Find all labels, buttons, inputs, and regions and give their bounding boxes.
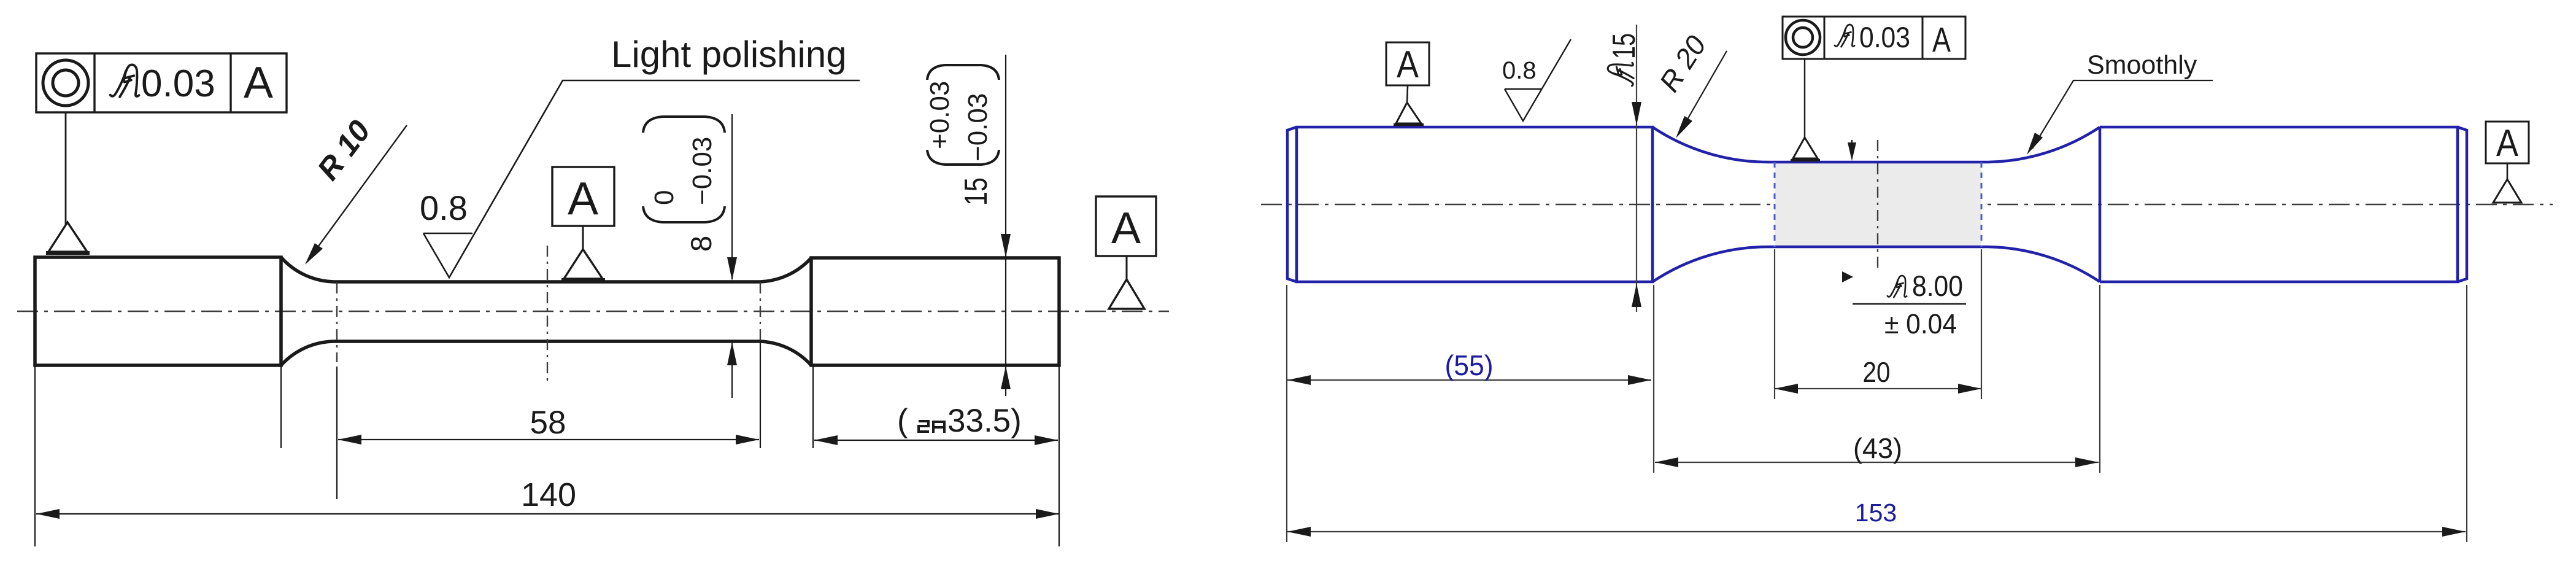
surface roughness 0.8 symbol [423, 80, 860, 278]
svg-text:R 10: R 10 [310, 114, 377, 186]
datum A box right of left view [1096, 196, 1156, 256]
extension line x=549 below part [336, 367, 337, 499]
dimension 15 tolerance bracket bottom [927, 150, 999, 165]
frame leader down to datum triangle [65, 112, 67, 225]
svg-text:A: A [1397, 44, 1419, 86]
extension line grip2 start [2099, 285, 2100, 473]
diameter glyph [110, 64, 139, 96]
extension line gauge left [1774, 249, 1775, 399]
svg-text:15: 15 [1606, 33, 1642, 59]
extension line grip1 end [1653, 285, 1654, 473]
svg-text:8.00: 8.00 [1912, 270, 1963, 302]
svg-text:153: 153 [1855, 499, 1897, 527]
right specimen outline [1297, 127, 1652, 282]
gauge zone blue dashed line left [1774, 162, 1776, 247]
centerline (horizontal axis, left view) [17, 311, 1169, 313]
fillet R20 bottom-right [1988, 247, 2100, 282]
dimension 8 tolerance bracket bottom [643, 206, 725, 222]
svg-text:15: 15 [958, 177, 994, 206]
tangent mark dash-dot at x=1239 [760, 282, 761, 341]
left grip cylinder outline [35, 257, 281, 365]
surface roughness 0.8 symbol (right view) [1505, 39, 1571, 121]
svg-text:A: A [1932, 20, 1951, 60]
extension line right end x=1726 [1059, 367, 1060, 546]
right pointing marker [1842, 271, 1853, 282]
R10 leader arrow [310, 125, 407, 258]
datum A feature box (mid reduced section) [552, 167, 614, 226]
dimension (55) line [1287, 379, 1651, 381]
extension line x=1325 below part [812, 367, 814, 448]
triangle on centerline [2493, 179, 2521, 203]
right grip cylinder outline [811, 258, 1059, 365]
diameter glyph [1835, 25, 1854, 47]
datum A stem [582, 226, 584, 250]
left end chamfer edge [1287, 127, 1297, 282]
phi15 label (rotated) [1606, 33, 1642, 86]
geometric tolerance frame right view [1783, 17, 1965, 59]
underline [1853, 303, 1966, 305]
datum A triangle on surface [564, 249, 603, 279]
svg-text:Smoothly: Smoothly [2087, 50, 2197, 80]
frame leader [1804, 59, 1805, 139]
extension line right end [2466, 285, 2467, 542]
Smoothly note leader [2032, 80, 2213, 149]
small 2A subscript glyphs [919, 421, 944, 433]
svg-text:−0.03: −0.03 [963, 93, 993, 161]
svg-text:A: A [244, 58, 273, 107]
svg-text:33.5): 33.5) [947, 403, 1022, 439]
dimension 8 vertical line upper segment [731, 114, 733, 279]
extension line x=1239 below part [760, 343, 761, 448]
datum A box (left of right view) [1386, 42, 1429, 85]
extension line left end [34, 367, 36, 546]
fillet R10 top-left [281, 257, 334, 282]
svg-text:+0.03: +0.03 [925, 81, 955, 149]
right grip outline [2100, 127, 2458, 282]
stem [2507, 163, 2509, 181]
dimension 15 tolerance bracket top [927, 65, 999, 80]
svg-text:0.03: 0.03 [141, 63, 215, 105]
dimension 8 vertical line lower segment [731, 343, 733, 398]
geometric tolerance frame (concentricity 0.03 A) [36, 53, 287, 112]
svg-text:(: ( [897, 403, 908, 439]
concentricity symbol [1786, 20, 1820, 55]
datum A box far right [2486, 122, 2529, 163]
concentricity symbol [43, 60, 88, 106]
fillet R20 top-left [1652, 127, 1770, 162]
svg-text:A: A [2496, 122, 2519, 165]
centerline (horizontal axis, right view) [1261, 204, 2553, 206]
reduced section bottom edge [334, 340, 760, 343]
svg-text:58: 58 [530, 405, 566, 441]
triangle on centerline [1109, 279, 1144, 309]
svg-text:± 0.04: ± 0.04 [1884, 308, 1957, 340]
stem [1407, 85, 1408, 104]
svg-text:Light polishing: Light polishing [611, 34, 847, 75]
R20 leader arrow [1680, 51, 1727, 132]
gauge centre dash-dot vertical [1877, 140, 1878, 269]
svg-text:(55): (55) [1445, 349, 1494, 381]
svg-text:0: 0 [649, 190, 679, 205]
fillet R10 bottom-left [281, 341, 334, 365]
svg-text:−0.03: −0.03 [687, 137, 717, 205]
extension line grip1 end x=458 [280, 367, 282, 448]
datum triangle on left grip [48, 222, 87, 252]
svg-text:0.8: 0.8 [1502, 57, 1537, 84]
dimension 140 line [36, 513, 1059, 514]
dimension 15 vertical line [1005, 55, 1006, 396]
phi 8.00 dimension text [1888, 276, 1907, 297]
right end chamfer edge [2458, 127, 2467, 282]
fillet R10 top-right [760, 258, 811, 282]
fillet R10 bottom-right [760, 341, 811, 365]
dimension 153 line [1287, 531, 2466, 532]
svg-text:20: 20 [1863, 356, 1891, 388]
svg-text:8: 8 [685, 236, 717, 252]
small down arrow on gauge [1851, 140, 1853, 147]
extension line gauge right [1981, 249, 1982, 399]
dimension phi15 vertical line [1636, 25, 1637, 312]
extension line left end [1286, 285, 1287, 542]
gauge top edge [1770, 161, 1988, 164]
dimension 58 line [338, 439, 759, 440]
svg-text:140: 140 [521, 476, 576, 513]
reduced section top edge [334, 280, 760, 284]
stem [1126, 256, 1128, 281]
dimension (43) line [1655, 462, 2099, 463]
svg-text:0.8: 0.8 [420, 188, 468, 227]
svg-text:(43): (43) [1853, 432, 1902, 464]
tangent mark dash-dot at x=549 [336, 282, 337, 362]
triangle on grip surface [1396, 103, 1421, 123]
gauge bottom edge [1770, 246, 1988, 249]
dimension 33.5 line [814, 440, 1058, 441]
dimension 8 tolerance bracket top [643, 117, 725, 133]
fillet R20 bottom-left [1652, 247, 1770, 282]
datum triangle on gauge [1793, 138, 1818, 158]
svg-text:A: A [568, 173, 598, 224]
fillet R20 top-right [1988, 127, 2100, 162]
gauge middle grey zone [1775, 163, 1981, 246]
svg-text:A: A [1111, 204, 1141, 253]
svg-text:0.03: 0.03 [1859, 21, 1910, 53]
gauge zone blue dashed line right [1981, 162, 1983, 247]
svg-text:R 20: R 20 [1653, 29, 1713, 97]
dimension 20 line [1775, 388, 1981, 389]
mid-length dash-dot mark at x=892 [547, 246, 548, 382]
